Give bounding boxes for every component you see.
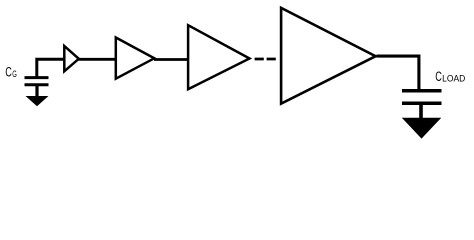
svg-text:G: G [12,69,17,79]
ground [26,96,49,106]
capacitor CLOAD top plate [402,89,442,93]
wire [419,105,423,119]
buffer A4 [281,8,376,104]
svg-text:LOAD: LOAD [442,74,466,84]
wire [37,59,64,77]
capacitor CG bottom plate [25,83,49,86]
buffer A2 [116,38,155,79]
wire [154,58,189,61]
wire dashed [255,58,276,61]
capacitor CG top plate [25,76,49,79]
buffer A1 [64,46,79,71]
svg-text:C: C [435,69,442,84]
ground [402,118,442,139]
wire [79,58,117,61]
buffer A3 [188,25,249,89]
wire [377,56,419,90]
wire [35,86,38,97]
capacitor CLOAD bottom plate [402,101,442,105]
svg-text:C: C [5,64,12,79]
